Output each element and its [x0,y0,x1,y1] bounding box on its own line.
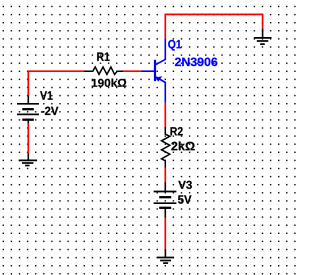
resistor R1 [84,67,123,74]
value -2V [41,107,58,115]
label R2 [170,127,182,135]
ground (left, below V1) [19,153,37,165]
label V3 [178,181,192,189]
ground (bottom) [157,249,174,263]
wire R2 to V3 positive terminal [164,168,166,183]
value 190kΩ [92,79,126,87]
label V1 [40,91,53,99]
ground (top right) [254,29,272,44]
value 5V [178,195,191,203]
resistor R2 [162,127,170,168]
label Q1 [168,40,181,51]
value 2N3906 [175,58,217,67]
transistor Q1 (PNP 2N3906): base lead, base bar, collector, emitter with arrow [141,39,165,103]
wire V3 negative terminal to bottom ground [164,218,166,250]
wire V1 positive terminal up and right to R1 [28,71,84,95]
wire Q1 emitter down to R2 [164,103,166,127]
wire R1 to Q1 base [123,70,141,72]
label R1 [97,52,109,60]
wire Q1 collector up and right to top ground [165,14,262,38]
battery V1 (-2V source) [17,96,39,124]
wire V1 negative terminal to left ground [27,124,29,154]
battery V3 (5V source) [154,183,177,218]
value 2kΩ [171,141,194,150]
